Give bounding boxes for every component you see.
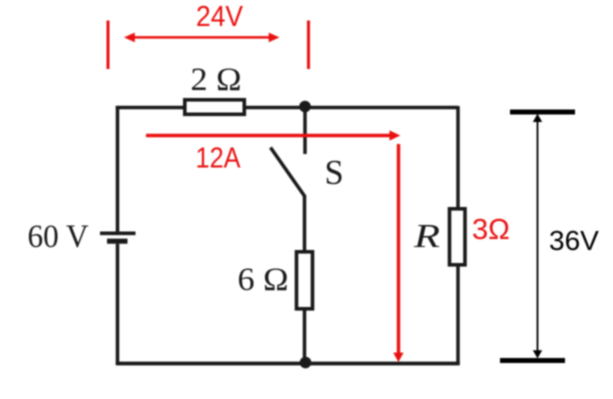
red tick mark right (24V measure) <box>307 21 310 70</box>
wire middle branch: switch to resistor 6Ω <box>303 195 307 251</box>
svg-text:60 V: 60 V <box>28 219 89 255</box>
svg-text:36V: 36V <box>549 225 599 256</box>
red tick mark left (24V measure) <box>107 21 110 70</box>
wire top: resistor 2Ω to node A <box>245 106 306 110</box>
wire bottom: left corner to right corner <box>116 362 460 366</box>
wire middle branch: node A down to switch <box>303 108 307 155</box>
svg-text:R: R <box>413 218 441 255</box>
wire top: node A to top-right corner <box>305 106 458 110</box>
voltmeter span 36V: double-headed vertical arrow <box>533 114 542 359</box>
wire right side: resistor R down to bottom-right corner <box>456 264 460 365</box>
resistor R (3Ω) <box>450 209 466 265</box>
switch S blade <box>271 148 305 197</box>
resistor R6 (6 Ω) <box>297 252 313 309</box>
voltmeter span 36V: top cap <box>510 110 575 115</box>
battery V1 long plate (+) <box>100 232 136 236</box>
red current arrow 12A (horizontal) <box>146 130 400 140</box>
svg-text:12A: 12A <box>196 143 242 175</box>
red double-headed arrow 24V <box>124 33 280 43</box>
svg-text:S: S <box>325 154 344 192</box>
svg-text:3Ω: 3Ω <box>472 214 510 246</box>
resistor R2 (2 Ω) <box>185 100 245 115</box>
wire top: left corner to resistor 2Ω <box>116 106 184 110</box>
wire right side: top-right corner down to resistor R <box>456 106 460 208</box>
node A (top junction dot) <box>299 101 311 113</box>
battery V1 short plate (-) <box>107 239 128 244</box>
svg-text:6 Ω: 6 Ω <box>238 262 289 298</box>
red current arrow (vertical, down to bottom wire) <box>393 144 403 362</box>
wire middle branch: resistor 6Ω down to node B <box>303 309 307 363</box>
voltmeter span 36V: bottom cap <box>500 358 565 363</box>
node B (bottom junction dot) <box>300 357 312 369</box>
svg-text:2 Ω: 2 Ω <box>191 62 242 98</box>
wire left side: top corner down to battery <box>116 106 120 232</box>
svg-text:24V: 24V <box>196 1 244 33</box>
wire left side: battery down to bottom-left corner <box>116 244 120 365</box>
